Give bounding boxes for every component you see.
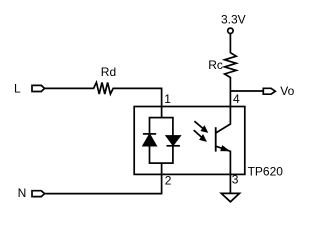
svg-text:Vo: Vo [280, 84, 294, 98]
svg-text:4: 4 [233, 92, 240, 106]
svg-text:Rd: Rd [101, 65, 116, 79]
svg-text:1: 1 [164, 92, 171, 106]
svg-text:3.3V: 3.3V [221, 12, 246, 26]
svg-text:Rc: Rc [208, 58, 223, 72]
svg-text:3: 3 [232, 172, 239, 186]
svg-text:N: N [18, 186, 27, 200]
svg-text:L: L [14, 81, 21, 95]
svg-text:TP620: TP620 [248, 165, 284, 179]
svg-text:2: 2 [165, 174, 172, 188]
